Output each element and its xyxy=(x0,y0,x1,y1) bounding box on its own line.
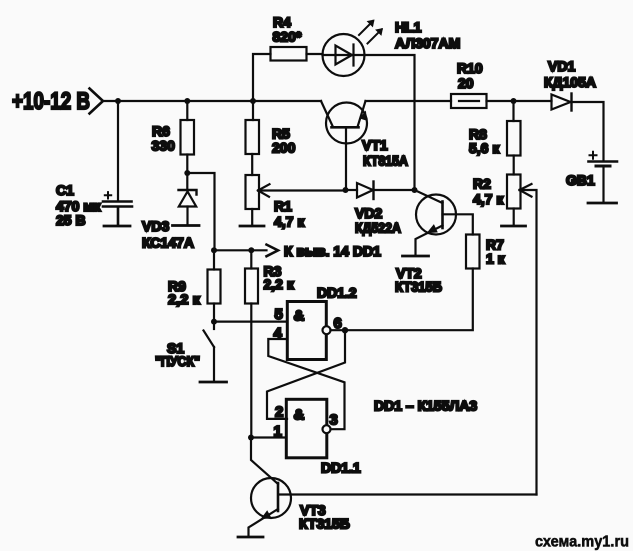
svg-text:"ПУСК": "ПУСК" xyxy=(155,353,200,369)
ground VD3 xyxy=(173,224,200,227)
node VD2-VT2 base xyxy=(412,187,418,193)
svg-text:20: 20 xyxy=(458,75,474,91)
wire emitter rail to R10 xyxy=(366,100,452,102)
switch S1 xyxy=(213,322,215,329)
gate DD1.1 xyxy=(286,399,327,458)
svg-text:5,6 к: 5,6 к xyxy=(469,140,500,156)
resistor R7 xyxy=(466,235,480,269)
wire R3 to pin1/VT3 xyxy=(250,304,252,438)
wire main rail left xyxy=(103,100,321,102)
svg-text:4,7 к: 4,7 к xyxy=(473,191,504,207)
resistor R4 xyxy=(271,47,307,61)
wire HL1 to base node xyxy=(365,55,415,190)
resistor R6 xyxy=(181,120,195,155)
svg-text:2,2 к: 2,2 к xyxy=(264,276,295,292)
wire R2 wiper to VT3 collector xyxy=(520,190,537,495)
node rail-R5/R4 xyxy=(250,98,256,104)
svg-text:25 В: 25 В xyxy=(56,212,86,228)
transistor VT1 xyxy=(326,103,367,144)
diode VD1 xyxy=(552,95,571,110)
svg-text:+10-12 В: +10-12 В xyxy=(12,88,90,115)
diode VD2 xyxy=(346,189,358,191)
wire pin5 xyxy=(214,321,287,323)
wire R4-HL1 xyxy=(307,53,323,55)
wire R6-VD3 xyxy=(186,155,188,174)
transistor VT3 xyxy=(251,478,291,518)
ground VT2 xyxy=(403,255,429,258)
transistor VT2 xyxy=(416,195,456,235)
node R9 top xyxy=(211,247,217,253)
resistor R8 xyxy=(507,121,521,156)
wire pin6 cross to pin2 xyxy=(267,330,345,419)
svg-text:КД105А: КД105А xyxy=(544,74,596,90)
svg-text:2: 2 xyxy=(275,404,283,421)
wire R1 bottom xyxy=(251,209,253,225)
wire R5 drop xyxy=(252,101,254,120)
wire R4 riser xyxy=(253,54,271,101)
svg-text:DD1 – К155ЛА3: DD1 – К155ЛА3 xyxy=(374,398,477,414)
svg-text:5: 5 xyxy=(275,306,283,323)
wire R5-R1 xyxy=(251,154,253,175)
wire pin6 out xyxy=(331,329,346,331)
wire pin1 xyxy=(251,436,286,438)
node VT1 base / R1 / VD2 xyxy=(343,187,349,193)
svg-text:КТ815А: КТ815А xyxy=(363,153,408,169)
svg-text:2,2 к: 2,2 к xyxy=(168,291,201,307)
wire K vyv 14 DD1 xyxy=(215,249,267,251)
node rail-C1 xyxy=(115,98,121,104)
svg-text:R2: R2 xyxy=(473,176,491,192)
resistor R5 xyxy=(246,120,260,154)
node pin1-VT3 base xyxy=(248,435,254,441)
node R6-VD3 xyxy=(184,170,190,176)
inverter bubble DD1.2 out xyxy=(323,326,331,334)
resistor R10 xyxy=(451,94,487,108)
wire R2 bottom xyxy=(513,209,515,226)
ground C1 xyxy=(104,225,130,228)
svg-text:КТ315Б: КТ315Б xyxy=(395,279,442,295)
svg-text:АЛ307АМ: АЛ307АМ xyxy=(395,35,460,51)
wire R7 to pin6 net xyxy=(345,269,473,331)
ground S1 xyxy=(200,381,227,384)
resistor R3 xyxy=(250,250,252,268)
wire to VD1 xyxy=(514,100,552,102)
wire pin4 cross to pin3 xyxy=(268,339,344,429)
svg-text:КТ315Б: КТ315Б xyxy=(299,516,350,532)
node R9-S1-pin5 xyxy=(211,319,217,325)
svg-text:DD1.1: DD1.1 xyxy=(321,460,361,476)
ground R2 xyxy=(502,225,526,228)
capacitor C1 xyxy=(103,202,132,226)
wire VD1 to GB1 xyxy=(572,102,604,161)
ground GB1 xyxy=(588,202,617,205)
gate DD1.2 xyxy=(287,302,326,360)
wire R1 wiper xyxy=(258,189,346,191)
svg-text:&: & xyxy=(294,407,305,424)
svg-text:820*: 820* xyxy=(273,29,302,45)
svg-text:КС147А: КС147А xyxy=(142,235,194,251)
svg-text:4,7 к: 4,7 к xyxy=(274,214,305,230)
inverter bubble DD1.1 out xyxy=(323,425,331,433)
node R10-R8 xyxy=(511,98,517,104)
input terminal +10-12 В xyxy=(90,89,104,114)
svg-text:200: 200 xyxy=(272,140,296,156)
resistor R9 xyxy=(213,250,215,269)
svg-text:К выв. 14 DD1: К выв. 14 DD1 xyxy=(284,243,381,259)
wire R6 drop xyxy=(186,101,188,120)
svg-text:C1: C1 xyxy=(56,182,74,198)
svg-text:VT1: VT1 xyxy=(362,137,388,153)
svg-text:330: 330 xyxy=(152,138,176,154)
node R3 top xyxy=(248,247,254,253)
ground VT3 xyxy=(238,536,263,539)
svg-text:VD1: VD1 xyxy=(548,58,575,74)
zener VD3 xyxy=(186,173,188,190)
battery GB1 xyxy=(589,160,618,163)
LED HL1 xyxy=(323,34,365,76)
node rail-R6 xyxy=(184,98,190,104)
potentiometer R1 xyxy=(246,175,260,209)
wire R8-R2 xyxy=(513,156,515,175)
svg-text:R1: R1 xyxy=(274,198,292,214)
svg-text:VD3: VD3 xyxy=(142,218,169,234)
svg-text:КД522А: КД522А xyxy=(355,220,401,236)
wire VD3 node to DD1 supply xyxy=(187,173,214,250)
svg-text:HL1: HL1 xyxy=(395,19,422,35)
svg-text:1 к: 1 к xyxy=(486,251,506,267)
ground R1 xyxy=(240,225,264,228)
svg-text:3: 3 xyxy=(330,412,338,429)
svg-text:схема.my1.ru: схема.my1.ru xyxy=(535,534,629,551)
wire R8 drop xyxy=(512,101,514,121)
potentiometer R2 xyxy=(507,175,521,209)
svg-text:DD1.2: DD1.2 xyxy=(317,285,357,301)
wire C1 drop xyxy=(117,101,119,200)
node pin6 xyxy=(342,327,348,333)
wire R10 out xyxy=(487,100,514,102)
svg-text:&: & xyxy=(294,308,305,325)
svg-text:R10: R10 xyxy=(457,60,483,76)
svg-text:GB1: GB1 xyxy=(566,172,595,188)
